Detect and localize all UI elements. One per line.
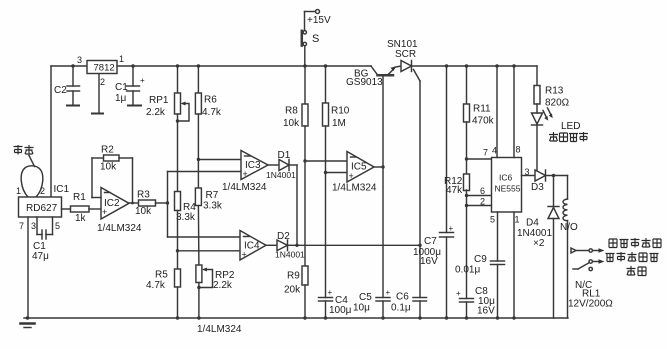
svg-text:R11: R11 [473,104,491,115]
resistor R1 [62,208,71,210]
svg-text:RP1: RP1 [149,95,169,106]
terminal +15V [316,10,320,14]
resistor R5 [175,269,181,287]
svg-text:3: 3 [31,221,36,231]
wire SCR gate [414,70,421,82]
svg-text:+: + [102,207,107,217]
svg-text:1: 1 [515,215,520,225]
thyristor SCR SN101 [401,61,412,72]
svg-text:2.2k: 2.2k [146,107,166,118]
potentiometer RP1 [175,93,181,114]
wire 555 pin3 [522,175,536,177]
svg-text:1μ: 1μ [115,93,127,104]
led LED [532,113,543,124]
capacitor C7 [440,232,454,234]
node R10 C4 junction [324,171,327,174]
svg-text:+: + [456,289,461,298]
svg-text:1M: 1M [332,118,346,129]
svg-text:D3: D3 [531,182,544,193]
svg-text:2: 2 [100,77,105,87]
wire node to R12 [466,159,468,174]
svg-text:IC1: IC1 [54,184,70,195]
capacitor C4 [319,297,333,299]
svg-text:C1: C1 [115,82,128,93]
svg-text:+: + [349,171,354,181]
wire node to IC4 plus [178,250,241,252]
wire rail to R10 [325,66,327,103]
diode D4 [548,206,559,208]
resistor R3 [139,200,156,206]
wire R12 to C8 [466,190,468,299]
label antenna 天线 [14,145,23,155]
node rail C7 [445,64,448,67]
wire node to IC3 minus [198,159,241,161]
svg-text:C5: C5 [359,292,372,303]
node pin6 junction [465,194,468,197]
op-amp IC3 [241,151,268,180]
svg-text:C6: C6 [396,292,409,303]
resistor R7 [195,188,201,206]
wire IC2 output [129,202,139,204]
wire R2 right leg [132,158,134,203]
potentiometer RP2 [196,265,202,283]
relay contact N/C [589,260,592,263]
capacitor C6 [413,297,427,299]
wire node to R9 [304,161,306,266]
label 按键 [627,266,636,276]
node pin2 junction [465,204,468,207]
svg-text:D1: D1 [278,150,291,161]
wire bottom rail [24,317,568,319]
transistor BG base bar [378,74,394,77]
wire coil top [567,176,569,200]
svg-text:RD627: RD627 [26,203,58,214]
resistor R9 [302,266,308,285]
ground C1 1u [128,105,141,107]
regulator 7812 [87,61,117,74]
capacitor C2 [71,64,74,67]
node D3 D4 junction [552,174,555,177]
svg-text:C9: C9 [474,254,487,265]
svg-text:2: 2 [40,186,45,196]
svg-text:+: + [243,169,248,179]
pin 7 RD627 wire down [27,217,29,318]
node D1 D2 junction [295,244,298,247]
wire coil bottom [567,221,569,318]
svg-text:4.7k: 4.7k [146,280,166,291]
wire RD627 pin5 to C1 [52,217,54,235]
svg-text:5: 5 [55,221,60,231]
wire D3 to coil [546,175,568,177]
capacitor C9 [491,260,505,262]
svg-text:3: 3 [77,55,82,65]
svg-text:C2: C2 [54,85,67,96]
op-amp IC2 [101,188,129,220]
svg-text:16V: 16V [477,306,495,317]
ground C2 [67,105,79,107]
node bottom left [26,316,29,319]
wire R8 to node [304,126,306,161]
svg-text:10μ: 10μ [353,303,370,314]
wire rail to R11 [466,66,468,104]
svg-text:N/O: N/O [560,222,578,233]
svg-text:+: + [242,250,247,260]
svg-text:12V/200Ω: 12V/200Ω [568,299,613,310]
svg-text:7: 7 [483,148,488,158]
wire 555 pin7 [467,158,492,160]
wire 555 pin1 [513,212,515,318]
wire C7 column [446,66,448,233]
svg-text:4: 4 [492,146,497,156]
wire top rail right segment [447,65,538,67]
wire top rail to BG collector [326,65,372,67]
svg-text:100μ: 100μ [329,305,352,316]
capacitor C5 [376,297,390,299]
svg-text:R2: R2 [101,145,114,156]
resistor R12 [464,174,470,191]
svg-text:16V: 16V [420,256,438,267]
svg-text:R5: R5 [155,270,168,281]
svg-text:5: 5 [490,215,495,225]
svg-text:R6: R6 [204,95,217,106]
svg-text:820Ω: 820Ω [545,98,570,109]
wire base column [382,76,384,298]
node rail 555 pin4 [495,64,498,67]
svg-text:1N4001: 1N4001 [266,170,296,180]
antenna loop [21,166,43,197]
svg-text:10k: 10k [283,118,300,129]
resistor R4 [175,192,181,211]
resistor R11 [464,104,470,122]
svg-text:R3: R3 [137,190,150,201]
label 手机寻呼 [606,254,615,262]
svg-text:R10: R10 [331,106,350,117]
capacitor C1 1u [131,64,134,67]
wire R9 to rail [304,285,306,318]
wire RD627 pin3 to C1 [36,217,38,235]
diode D3 [535,170,546,181]
wire antenna lead [29,156,35,167]
svg-text:LED: LED [561,121,580,132]
wire D2 to junction [288,244,298,246]
svg-text:1/4LM324: 1/4LM324 [332,183,377,194]
transistor BG emitter [389,68,396,75]
svg-text:47k: 47k [446,185,463,196]
svg-text:0.01μ: 0.01μ [455,265,480,276]
wire LED to pin3 line [536,104,538,113]
svg-text:10k: 10k [100,162,117,173]
node rail R10 [324,64,327,67]
wire IC5 output [374,166,383,168]
wire 555 pin6 [467,195,492,197]
svg-text:47μ: 47μ [32,251,49,262]
wire 555 pin8 [513,66,515,158]
wire R2 left leg [91,158,93,198]
wire 555 pin4 [496,66,498,158]
svg-text:+15V: +15V [307,15,331,26]
svg-text:0.1μ: 0.1μ [391,303,411,314]
svg-text:470k: 470k [472,116,495,127]
svg-text:R8: R8 [285,106,298,117]
node R4 R5 junction [176,249,179,252]
wire top rail from 7812 pin1 to switch node [117,65,305,67]
svg-text:3.3k: 3.3k [176,212,196,223]
node R11 pin7 [465,157,468,160]
svg-text:S: S [312,33,319,45]
wire node to R7 [197,160,199,189]
wire left vertical drop to IC1 [50,66,52,197]
node R6 R7 junction [197,158,200,161]
wire R6 to node [197,114,199,160]
svg-text:R7: R7 [206,190,219,201]
node IC5 output [381,165,384,168]
ic IC6 NE555 [492,158,522,213]
node rail R6 [197,64,200,67]
resistor R6 [195,93,201,114]
wire 555 pin2 [467,205,492,207]
svg-text:NE555: NE555 [495,184,521,194]
svg-text:SCR: SCR [395,49,416,60]
label 至无绳电话 [609,239,617,248]
wire RP1 wiper [179,104,189,122]
svg-text:2: 2 [480,197,485,207]
op-amp IC4 [240,231,266,261]
svg-text:10k: 10k [135,206,152,217]
svg-text:IC6: IC6 [499,173,513,183]
svg-text:+: + [386,288,391,297]
wire D1 to junction [289,164,297,166]
op-amp IC5 [347,152,374,183]
wire top rail left segment [51,65,87,67]
resistor R8 [302,104,308,126]
ground bottom rail [21,322,35,325]
node rail switch [303,64,306,67]
wire IC4 output [266,244,277,246]
svg-text:GS9013: GS9013 [346,77,383,88]
wire D4 column lower [553,219,555,319]
label 告警指示 [549,132,558,142]
wire node to IC5 plus [326,172,348,174]
wire rail to RP1 [177,66,179,93]
node rail R11 [465,64,468,67]
wire IC2 inv input [92,197,101,199]
svg-text:D4: D4 [526,218,539,229]
node rail RP1 [176,64,179,67]
svg-text:4.7k: 4.7k [202,107,222,118]
wire R11 to node [466,122,468,159]
wire signal to IC4 minus [168,236,241,238]
wire 7812 pin2 down [98,74,100,113]
svg-text:7: 7 [19,221,24,231]
svg-text:R9: R9 [287,271,300,282]
svg-text:1/4LM324: 1/4LM324 [222,182,267,193]
wire node to IC5 minus [305,160,347,162]
node signal junction [166,201,169,204]
wire RP2 wiper [200,270,213,288]
switch S [303,31,306,34]
svg-text:+: + [449,224,454,233]
capacitor C8 [460,298,474,300]
wire signal to IC3 plus [168,171,242,173]
node rail 555 pin8 [512,64,515,67]
ic RD627 [19,197,62,217]
svg-text:1: 1 [119,54,124,64]
wire trigger line to SCR gate [297,244,420,246]
node R8 R9 junction [303,159,306,162]
svg-text:1: 1 [16,186,21,196]
svg-text:1k: 1k [75,213,87,224]
wire rail to R8 [304,66,306,104]
svg-text:8: 8 [516,145,521,155]
wire R7 to RP2 [197,206,200,266]
wire node to C4 [325,173,327,298]
svg-text:R1: R1 [73,192,86,203]
wire 555 pin5 [497,212,499,261]
svg-text:1/4LM324: 1/4LM324 [97,223,142,234]
wire node to R5 [177,251,179,269]
svg-text:+: + [328,288,333,297]
wire signal branch vertical [167,172,169,238]
svg-text:R13: R13 [545,86,564,97]
svg-text:×2: ×2 [533,238,545,249]
svg-text:3.3k: 3.3k [203,201,223,212]
capacitor C1 47u [41,230,43,239]
wire RP1 to R4 [177,114,179,192]
relay coil RL1 [563,199,568,221]
wire D4 column upper [553,176,555,207]
svg-text:1N4001: 1N4001 [275,250,305,260]
wire RP2 to rail [198,283,200,319]
svg-text:2.2k: 2.2k [213,280,233,291]
resistor R10 [323,103,329,126]
svg-text:1/4LM324: 1/4LM324 [197,324,242,335]
wire R10 to node [325,126,327,173]
resistor R13 [534,86,540,105]
svg-text:7812: 7812 [94,63,115,74]
relay contact N/O [571,248,576,253]
wire rail to R6 [197,66,199,93]
svg-text:6: 6 [480,186,485,196]
resistor R2 [92,157,104,159]
wire R5 to rail [177,287,179,318]
ground 7812 pin2 [92,113,103,115]
svg-text:C7: C7 [424,236,437,247]
svg-text:+: + [140,76,145,85]
wire IC3 output [268,164,279,166]
svg-text:20k: 20k [284,285,301,296]
node SCR gate column [418,244,421,247]
diode D2 [277,240,288,251]
wire top rail switch to R10 node [305,65,326,67]
wire R4 to node [177,211,179,251]
diode D1 [279,160,289,171]
svg-text:D2: D2 [277,231,290,242]
